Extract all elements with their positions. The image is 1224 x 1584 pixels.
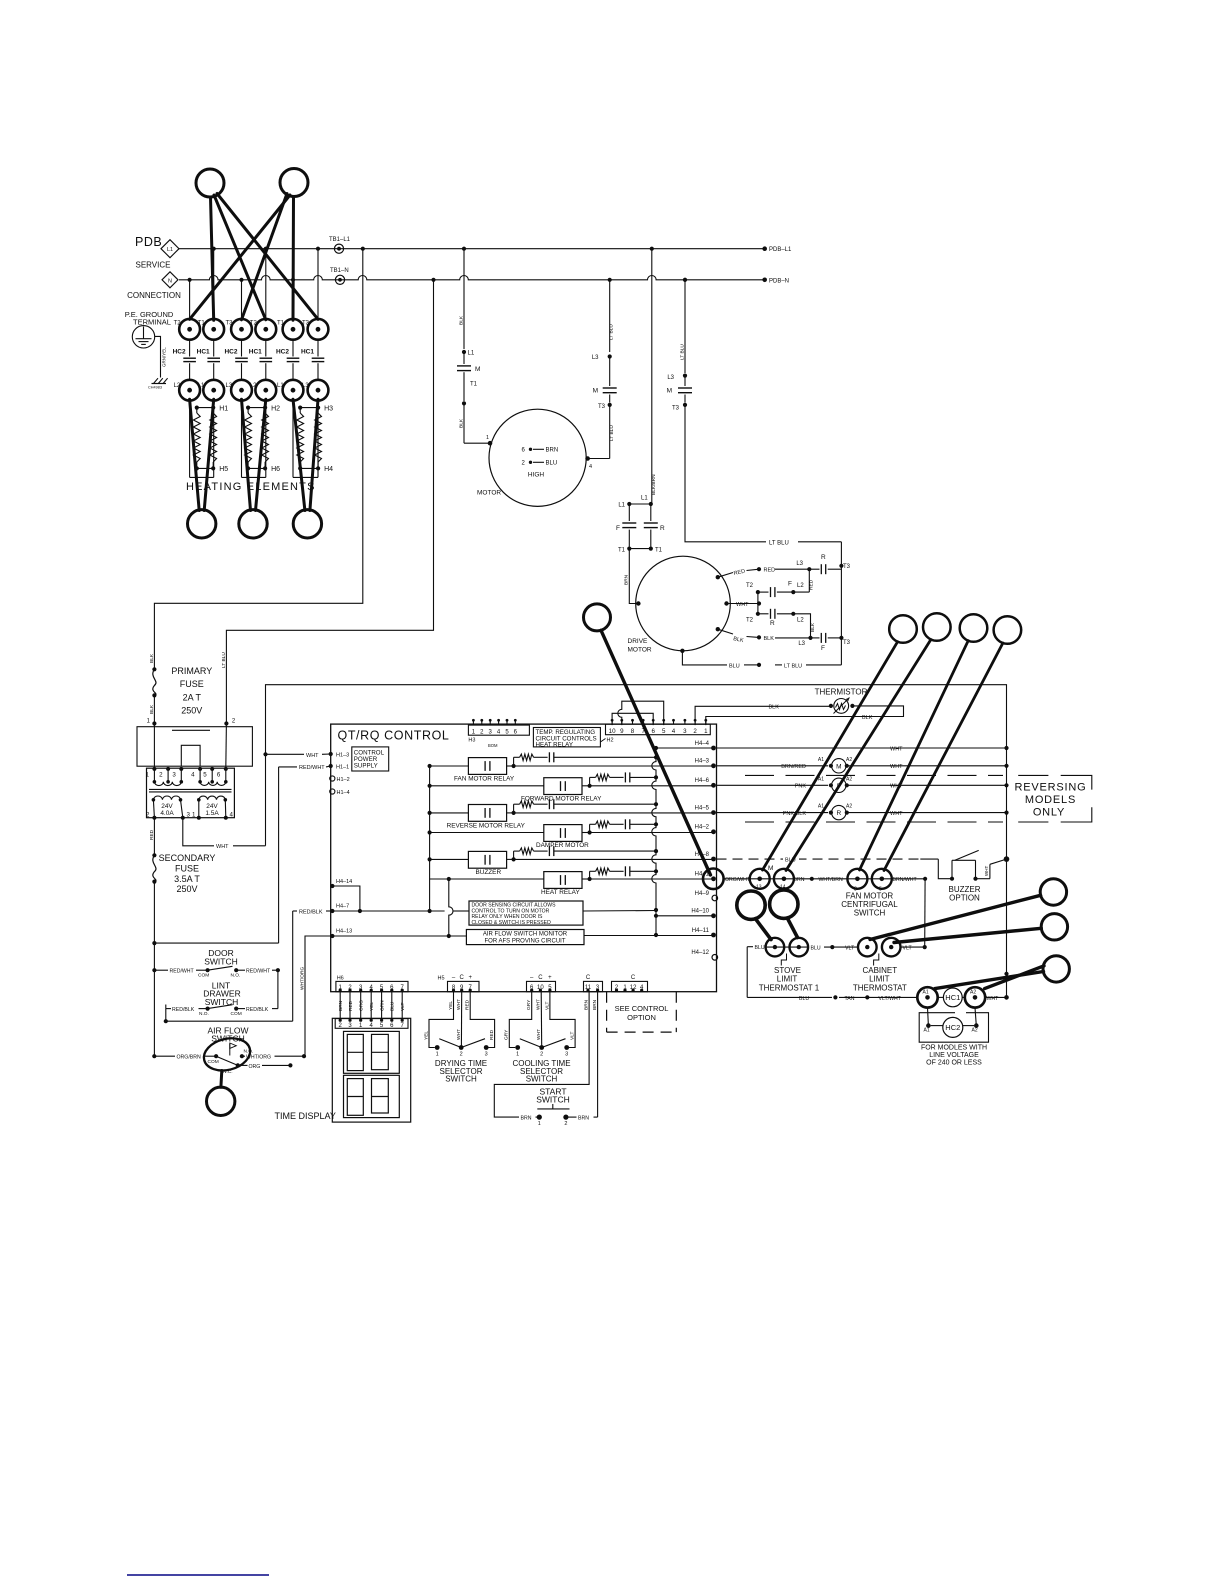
wire row ext BRN/RED	[717, 757, 1007, 773]
svg-text:T3: T3	[302, 320, 310, 326]
wire row H4-4 ext WHT	[717, 746, 1007, 752]
label GRN/YEL	[162, 347, 167, 367]
svg-text:SWITCH: SWITCH	[445, 1075, 477, 1084]
connector H5 group4	[612, 975, 648, 992]
wire row H4-10	[656, 915, 714, 917]
terminal L2 contactor bottom pole 1	[174, 380, 200, 401]
harness wire element 1 leads	[190, 399, 214, 510]
switch air flow contacts	[152, 1043, 306, 1075]
harness circle J5	[994, 616, 1022, 644]
wire branch3 LT BLU	[667, 278, 687, 381]
label BLK thermistor left	[769, 705, 780, 711]
pin H4-1	[695, 869, 724, 890]
wire element frame 1	[190, 401, 214, 478]
stove limit thermostat contact A	[766, 938, 785, 957]
svg-text:N.O.: N.O.	[244, 1048, 254, 1054]
svg-text:WHT: WHT	[987, 996, 1000, 1002]
dashed reversing top	[745, 775, 1092, 789]
pin H1-4	[330, 789, 350, 796]
wire columns to buses	[190, 249, 318, 319]
svg-text:T1: T1	[277, 320, 285, 326]
svg-text:SWITCH: SWITCH	[536, 1095, 570, 1105]
svg-text:PRIMARY: PRIMARY	[171, 666, 212, 676]
svg-text:THERMISTOR: THERMISTOR	[815, 688, 868, 697]
svg-text:M: M	[768, 865, 773, 872]
svg-text:COM: COM	[208, 1059, 219, 1065]
heater feed circle P1	[196, 169, 224, 197]
svg-text:H6: H6	[271, 466, 280, 473]
svg-text:2: 2	[159, 772, 163, 779]
box transformer primary enclosure	[137, 727, 252, 767]
pin H4-5	[695, 805, 716, 815]
svg-text:BLU: BLU	[799, 996, 809, 1002]
svg-text:HIGH: HIGH	[528, 472, 545, 479]
svg-text:T1: T1	[470, 382, 478, 388]
svg-text:L3: L3	[302, 383, 309, 389]
svg-text:T2: T2	[174, 320, 182, 326]
box QT/RQ CONTROL	[331, 724, 717, 992]
svg-text:+: +	[468, 975, 472, 981]
terminal T3 contactor top pole 3	[226, 319, 252, 340]
svg-text:R: R	[770, 620, 775, 627]
svg-text:F: F	[821, 645, 825, 652]
svg-text:HC1: HC1	[249, 349, 262, 356]
pin H4-6	[695, 778, 716, 788]
switch cooling time selector	[515, 1039, 569, 1058]
label SERVICE	[136, 261, 171, 270]
harness lead airflow	[219, 1071, 223, 1088]
motor DRIVE MOTOR	[628, 556, 731, 653]
svg-text:FUSE: FUSE	[180, 679, 204, 689]
harness wire element 3 leads	[293, 399, 318, 510]
svg-text:BLU: BLU	[755, 945, 765, 951]
harness wire P1-T3b	[217, 194, 318, 320]
svg-text:BLU: BLU	[390, 1001, 396, 1011]
terminal TB1-L1	[329, 237, 351, 253]
svg-text:BLK: BLK	[769, 705, 780, 711]
contact-resistor motif BUZZER	[514, 846, 656, 859]
wire HC1 row	[747, 995, 917, 1001]
wire dashed BLU buzzer	[717, 855, 939, 864]
harness lead J4 to FMCS3	[860, 641, 969, 870]
harness circle J9	[1041, 914, 1067, 940]
svg-text:QT/RQ CONTROL: QT/RQ CONTROL	[338, 729, 450, 743]
svg-text:HC1: HC1	[301, 349, 314, 356]
svg-text:DAMPER MOTOR: DAMPER MOTOR	[536, 842, 589, 849]
svg-text:3.5A T: 3.5A T	[174, 874, 200, 884]
seven segment digits group1	[344, 1031, 400, 1073]
svg-text:1: 1	[704, 728, 708, 735]
svg-text:1: 1	[538, 1121, 541, 1127]
svg-text:WHT: WHT	[536, 1029, 542, 1040]
svg-text:1: 1	[436, 1052, 439, 1058]
wires H6 to display	[338, 992, 406, 1019]
svg-text:H1–3: H1–3	[336, 753, 349, 759]
svg-text:L3: L3	[667, 375, 674, 381]
label VLT right	[901, 945, 927, 952]
svg-text:H3: H3	[468, 738, 475, 744]
svg-text:RED: RED	[764, 568, 776, 574]
harness lead J3 to 14	[786, 640, 931, 871]
svg-text:YEL: YEL	[423, 1031, 429, 1040]
wire row H4-1 ext	[724, 877, 928, 884]
svg-text:A2: A2	[846, 757, 852, 763]
svg-text:L1: L1	[277, 383, 284, 389]
svg-text:H5: H5	[438, 976, 445, 982]
wire drive BLK	[718, 629, 813, 647]
svg-text:L2: L2	[797, 618, 804, 624]
svg-text:FOR MODLES WITH: FOR MODLES WITH	[921, 1044, 987, 1051]
fan motor centrifugal switch contact 5	[872, 869, 892, 893]
relay HEAT RELAY	[430, 872, 592, 896]
svg-text:L3: L3	[798, 641, 805, 647]
bus internal left	[428, 764, 432, 913]
svg-text:BLU: BLU	[811, 946, 821, 952]
svg-text:L2: L2	[797, 583, 804, 589]
svg-text:2: 2	[460, 1052, 463, 1058]
svg-text:CH4983: CH4983	[148, 386, 162, 390]
terminal L1 contactor bottom pole 2	[198, 380, 224, 401]
svg-text:OPTION: OPTION	[627, 1013, 656, 1022]
svg-text:1: 1	[486, 435, 489, 441]
wire motor branch LT BLU right	[592, 280, 615, 361]
svg-text:H2: H2	[607, 738, 614, 744]
label PDB-L1	[769, 247, 792, 253]
svg-text:T3: T3	[843, 640, 851, 646]
svg-text:CONNECTION: CONNECTION	[127, 291, 181, 300]
svg-text:4: 4	[191, 772, 195, 779]
resistor heating element H2a	[245, 408, 252, 469]
svg-text:BOM: BOM	[488, 743, 498, 748]
wire row ext PNK	[717, 776, 1007, 792]
label TIME DISPLAY	[275, 1111, 336, 1121]
wire row BUZZER to pin	[514, 858, 714, 860]
wire H2 loop pin10-pin6	[612, 713, 653, 725]
wire row H4-4	[656, 747, 714, 749]
dashed reversing bottom	[745, 807, 1092, 822]
pin H1-2	[330, 776, 350, 783]
capacitor R mid	[746, 609, 804, 627]
label BRN WHT/BRN	[794, 877, 843, 884]
contact HC1 pole 2	[197, 340, 220, 380]
pin H4-7 row	[330, 904, 469, 914]
svg-text:2: 2	[146, 812, 150, 819]
wire drive BLU bottom	[682, 651, 841, 670]
svg-text:GRY: GRY	[504, 1029, 510, 1040]
svg-text:WHT: WHT	[456, 999, 462, 1010]
harness lead J5 to FMCS5	[884, 643, 1003, 871]
svg-text:SECONDARY: SECONDARY	[159, 853, 216, 863]
svg-text:L1: L1	[641, 496, 648, 502]
svg-text:L1: L1	[167, 247, 173, 253]
element connector circle 1	[188, 510, 216, 538]
svg-text:BRN: BRN	[624, 574, 630, 585]
svg-text:L1: L1	[468, 351, 475, 357]
label STOVE LIMIT THERMOSTAT 1	[759, 966, 820, 992]
label LINT DRAWER SWITCH	[203, 981, 240, 1007]
svg-text:YEL: YEL	[369, 1002, 375, 1011]
svg-text:T3: T3	[672, 406, 680, 412]
svg-text:4: 4	[589, 464, 592, 470]
harness wire P2-T3	[242, 194, 288, 320]
svg-text:A2: A2	[846, 804, 852, 810]
svg-text:2A T: 2A T	[183, 693, 202, 703]
wire bus right common WHT	[1004, 697, 1010, 1000]
resistor heating element H3a	[297, 408, 304, 469]
svg-text:H1–4: H1–4	[337, 790, 350, 796]
svg-text:LT BLU: LT BLU	[769, 540, 789, 546]
terminal T3 contactor top pole 6	[302, 319, 328, 340]
svg-text:BLK: BLK	[764, 636, 775, 642]
svg-text:13: 13	[756, 885, 762, 891]
wire RED/WHT riser	[152, 767, 278, 945]
label PRIMARY FUSE 2A T 250V	[171, 666, 212, 716]
svg-text:F: F	[788, 581, 792, 588]
pin H4-8	[695, 852, 716, 862]
terminal N diamond	[162, 272, 178, 288]
svg-text:H4–3: H4–3	[695, 759, 710, 765]
svg-text:SERVICE: SERVICE	[136, 261, 171, 270]
wire to motor pin 1	[464, 435, 492, 446]
pin H1-3	[329, 752, 350, 759]
label CONNECTION	[127, 291, 181, 300]
svg-text:4: 4	[672, 728, 676, 735]
svg-text:A1: A1	[923, 989, 929, 995]
svg-text:24V: 24V	[161, 803, 173, 810]
wire H2 pin2 to thermistor	[695, 706, 831, 725]
wire WHT to bus	[985, 996, 1006, 1002]
label BLK thermistor return	[862, 715, 873, 721]
harness lead J7 to stove2	[787, 918, 797, 938]
harness lead J10a from HC1 A1	[935, 972, 1044, 989]
resistor heating element H2b	[262, 408, 269, 469]
svg-text:C: C	[538, 975, 543, 981]
element connector circle 2	[239, 510, 267, 538]
svg-text:WHT: WHT	[984, 866, 989, 876]
terminal T1 contactor top pole 5	[277, 319, 303, 340]
relay BUZZER	[430, 851, 516, 876]
svg-text:L3: L3	[796, 561, 803, 567]
fan motor centrifugal switch contact 3	[847, 869, 867, 893]
switch air flow ellipse	[200, 1034, 253, 1075]
svg-text:T3: T3	[226, 320, 234, 326]
svg-text:M: M	[475, 366, 480, 373]
wire BRN start right	[566, 992, 598, 1122]
wire HC2 A2 riser	[972, 1008, 979, 1034]
svg-text:CLOSED & SWITCH IS PRESSED: CLOSED & SWITCH IS PRESSED	[472, 920, 552, 926]
pin H4-4	[695, 741, 716, 751]
connector H3	[468, 719, 529, 748]
svg-text:24V: 24V	[206, 803, 218, 810]
svg-text:R: R	[836, 810, 841, 817]
svg-text:A1: A1	[924, 1028, 930, 1034]
svg-text:BRN: BRN	[521, 1116, 532, 1122]
terminal L3 contactor bottom pole 3	[226, 380, 252, 401]
svg-text:WHT: WHT	[890, 811, 903, 817]
svg-text:TB1–N: TB1–N	[330, 268, 349, 274]
connector H5 group2	[527, 975, 556, 992]
terminal L1 diamond	[161, 240, 179, 258]
svg-text:M: M	[593, 388, 598, 395]
box TEMP REGULATING	[533, 728, 605, 749]
switch buzzer option	[938, 850, 978, 880]
resistor heating element H3b	[315, 408, 322, 469]
pin H4-9	[695, 891, 718, 901]
pin H4-11	[692, 928, 716, 938]
wire thermistor return to H2 pin1	[706, 706, 904, 725]
svg-text:BRN: BRN	[546, 447, 559, 453]
terminal T2 contactor top pole 1	[174, 319, 200, 340]
svg-text:C: C	[460, 975, 465, 981]
terminal L2 contactor bottom pole 4	[250, 380, 276, 401]
svg-text:H4–11: H4–11	[692, 928, 710, 934]
svg-text:BLU: BLU	[729, 663, 740, 669]
svg-text:L3: L3	[226, 383, 233, 389]
relay FORWARD MOTOR RELAY	[430, 778, 602, 803]
svg-text:3: 3	[172, 772, 176, 779]
wire secondary pin3 WHT	[183, 818, 266, 851]
svg-text:ORG/WHT: ORG/WHT	[725, 877, 751, 883]
wire drive RED	[718, 561, 812, 577]
harness wire element 2 leads	[242, 399, 266, 510]
svg-text:T2: T2	[250, 320, 258, 326]
wire row REVERSE MOTOR RELAY to pin	[514, 812, 714, 814]
wire H2 loop pin9-pin5	[618, 701, 664, 725]
svg-text:A1: A1	[818, 757, 824, 763]
svg-text:VLT: VLT	[903, 946, 913, 952]
svg-text:RED/BLK: RED/BLK	[299, 910, 323, 916]
svg-text:HEATING ELEMENTS: HEATING ELEMENTS	[186, 481, 316, 493]
svg-text:3: 3	[485, 1052, 488, 1058]
svg-text:MODELS: MODELS	[1025, 794, 1076, 806]
svg-text:LIMIT: LIMIT	[777, 975, 798, 984]
wire BRN start loop	[494, 992, 589, 1122]
svg-text:10: 10	[609, 728, 616, 735]
svg-text:6: 6	[651, 728, 655, 735]
svg-text:BUZZER: BUZZER	[476, 869, 502, 876]
svg-text:H4–9: H4–9	[695, 891, 710, 897]
wire row FORWARD MOTOR RELAY to pin	[590, 785, 714, 787]
contactor HC1 A2	[965, 987, 985, 1007]
wire L2 to BLK node	[793, 614, 816, 638]
svg-text:REVERSING: REVERSING	[1015, 782, 1087, 794]
svg-text:PDB–L1: PDB–L1	[769, 247, 792, 253]
svg-text:5: 5	[662, 728, 666, 735]
pin H4-14	[330, 879, 360, 911]
wire BRN to drive motor	[624, 549, 638, 604]
harness circle J4	[960, 614, 988, 642]
wire motor pin 4	[585, 456, 609, 470]
box AIR FLOW SWITCH MONITOR	[466, 930, 584, 945]
svg-text:T1: T1	[655, 548, 663, 554]
wire LT BLU right riser	[839, 542, 843, 665]
pin H4-3	[695, 759, 716, 769]
bus internal right	[652, 746, 658, 937]
svg-text:HC2: HC2	[276, 349, 289, 356]
svg-text:9: 9	[620, 728, 624, 735]
svg-text:SWITCH: SWITCH	[526, 1075, 558, 1084]
node H5	[195, 466, 229, 473]
svg-text:MOTOR: MOTOR	[477, 490, 501, 497]
svg-text:THERMOSTAT 1: THERMOSTAT 1	[759, 983, 820, 992]
harness wire P2-T2	[190, 195, 290, 319]
svg-text:A2: A2	[972, 1028, 978, 1034]
contact HC1 pole 6	[301, 340, 324, 380]
harness circle J2	[889, 615, 917, 643]
svg-text:3: 3	[683, 728, 687, 735]
svg-text:250V: 250V	[181, 706, 202, 716]
svg-text:GRY: GRY	[526, 999, 532, 1010]
label FAN MOTOR CENTRIFUGAL SWITCH	[841, 892, 898, 918]
wire ground to chassis	[155, 336, 161, 377]
svg-text:RED: RED	[348, 1000, 354, 1011]
box time display	[332, 1018, 410, 1122]
svg-text:8: 8	[631, 728, 635, 735]
switch door	[152, 966, 280, 978]
seven segment digits group2	[344, 1075, 400, 1117]
svg-text:H4: H4	[324, 466, 333, 473]
svg-text:H5: H5	[219, 466, 228, 473]
harness lead J10b from HC1 A2	[985, 966, 1044, 989]
svg-text:BLK: BLK	[459, 418, 465, 428]
terminal T1 contactor top pole 2	[198, 319, 224, 340]
wire motor branch BLK	[459, 249, 475, 357]
svg-text:YEL: YEL	[448, 1001, 454, 1010]
svg-text:WHT: WHT	[306, 753, 319, 759]
svg-text:VLT: VLT	[400, 1002, 406, 1011]
svg-text:H4–10: H4–10	[691, 909, 709, 915]
svg-text:2: 2	[693, 728, 697, 735]
stove limit thermostat contact B	[790, 938, 809, 957]
wire WHT to H1-3	[263, 752, 330, 759]
svg-text:L2: L2	[174, 383, 181, 389]
wire branch2 to pin6	[221, 644, 236, 769]
label DRYING TIME SELECTOR SWITCH	[435, 1059, 487, 1084]
terminal 14	[774, 869, 794, 891]
resistor heating element H1b	[210, 408, 217, 469]
svg-text:C: C	[631, 975, 636, 981]
svg-text:F: F	[616, 525, 620, 532]
svg-text:BRN/RED: BRN/RED	[781, 764, 806, 770]
svg-text:RED: RED	[465, 999, 471, 1010]
wire element frame 3	[293, 401, 318, 478]
svg-text:RED: RED	[149, 829, 155, 840]
svg-text:HC1: HC1	[197, 349, 210, 356]
wire WHT/ORG riser to H4-13	[299, 936, 330, 1056]
svg-text:WHT/ORG: WHT/ORG	[299, 967, 305, 990]
svg-text:M: M	[836, 763, 841, 770]
svg-text:T1: T1	[618, 548, 626, 554]
svg-text:H4–7: H4–7	[336, 904, 349, 910]
svg-text:WHT: WHT	[890, 764, 903, 770]
svg-text:L1: L1	[618, 503, 625, 509]
capacitor R drive	[644, 504, 665, 547]
svg-text:RED/BLK: RED/BLK	[172, 1007, 195, 1013]
svg-text:H4–13: H4–13	[336, 929, 352, 935]
svg-text:5: 5	[203, 772, 207, 779]
svg-text:BLK: BLK	[810, 622, 816, 632]
wire HC2 A1 riser	[924, 1008, 931, 1034]
wire airflow box to H4-11	[584, 935, 714, 937]
capacitor contact M branch3	[667, 378, 692, 412]
svg-text:AIR FLOW SWITCH MONITOR: AIR FLOW SWITCH MONITOR	[483, 932, 568, 938]
svg-text:VLT/WHT: VLT/WHT	[879, 996, 902, 1002]
svg-text:BRN/WHT: BRN/WHT	[893, 877, 918, 883]
label COOLING TIME SELECTOR SWITCH	[512, 1059, 570, 1084]
svg-text:WHT: WHT	[736, 602, 749, 608]
resistor heating element H1a	[193, 408, 200, 469]
node H6	[246, 466, 280, 473]
